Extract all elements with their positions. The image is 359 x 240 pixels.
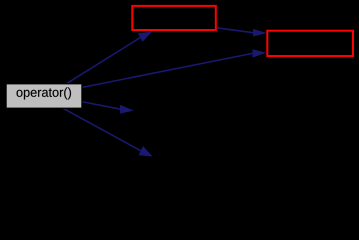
edge operator()->node1 (line to red box 1): [67, 38, 140, 84]
arrowhead node1->node2: [253, 29, 267, 37]
node red box 2 (truncated call graph node): [267, 31, 353, 56]
arrowhead operator()->node1: [138, 31, 153, 42]
edge node1->node2 (red box 1 to red box 2): [217, 28, 253, 33]
edge operator()->hidden node 3: [82, 102, 120, 109]
arrowhead operator()->node2: [252, 49, 266, 57]
edge operator()->node2 (line to red box 2, lower arrow): [82, 53, 252, 87]
node red box 1 (truncated call graph node): [132, 6, 216, 30]
node operator() (current node, gray box): [6, 84, 82, 109]
arrowhead operator()->hidden node 4: [139, 146, 153, 157]
edge operator()->hidden node 4: [63, 108, 141, 151]
arrowhead operator()->hidden node 3: [120, 105, 134, 114]
